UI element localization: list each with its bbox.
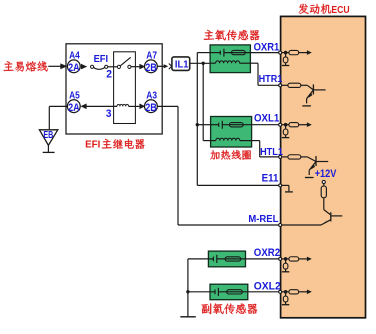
terminal A4 (2A) <box>67 50 80 74</box>
label 发动机ECU <box>299 4 350 16</box>
sub O2 sensor box OXL2 <box>210 284 248 300</box>
svg-text:A5: A5 <box>69 91 80 102</box>
label 主易熔线 <box>4 61 48 71</box>
svg-text:OXR1: OXR1 <box>254 42 280 54</box>
svg-text:2A: 2A <box>68 62 80 74</box>
wire A5 to ground <box>49 106 67 129</box>
svg-text:EFI: EFI <box>94 54 109 65</box>
ECU terminal E11 internal ground <box>279 184 293 192</box>
svg-text:ECU: ECU <box>331 5 349 16</box>
ECU terminal M-REL <box>279 224 321 227</box>
wire sensor common vertical (to E11) <box>197 53 210 186</box>
lower O2 heater box <box>211 117 252 148</box>
svg-text:A3: A3 <box>146 91 157 102</box>
arrow after A4 <box>81 64 87 70</box>
wire OXL2 <box>248 291 279 293</box>
heater coil 2 <box>211 138 252 140</box>
connector IL1 <box>172 57 190 71</box>
junction sub-sensor common <box>186 290 189 293</box>
ECU terminal OXR1 (pull-up network) <box>279 51 282 54</box>
svg-text:OXR2: OXR2 <box>254 247 280 259</box>
heater coil 1 <box>210 61 250 63</box>
wire IL1 to heater bus <box>190 62 210 64</box>
svg-text:2: 2 <box>106 69 112 81</box>
junction IL1/heater bus <box>202 62 205 65</box>
+12V supply and resistor <box>321 180 326 209</box>
wire heater2 to HTL1 <box>252 141 280 157</box>
svg-text:A4: A4 <box>69 50 80 61</box>
svg-text:HTR1: HTR1 <box>259 74 283 85</box>
svg-text:2B: 2B <box>145 102 157 114</box>
fuse EFI (fusible link) <box>91 65 108 69</box>
transistor M-REL driver <box>321 210 342 225</box>
ground EB <box>39 130 57 153</box>
svg-text:A7: A7 <box>146 50 157 61</box>
sensor cell 3 (battery + element) <box>188 255 246 263</box>
ECU box (发动机ECU) <box>281 16 366 317</box>
terminal A7 (2B) <box>145 50 158 74</box>
svg-text:+12V: +12V <box>315 168 337 180</box>
ECU terminal OXR2 (pull-up network) <box>279 257 282 260</box>
wire heater bus vertical <box>203 63 210 140</box>
svg-text:EB: EB <box>43 130 53 141</box>
label 副氧传感器 <box>202 303 258 314</box>
ECU terminal HTR1 driver transistor <box>279 84 282 87</box>
wire A7 to IL1 connector with arrow <box>157 64 171 70</box>
wire OXR1 <box>250 52 279 54</box>
label EFI主继电器 <box>85 139 144 151</box>
svg-text:3: 3 <box>106 108 112 120</box>
wire OXR2 <box>246 258 280 260</box>
wire switch to A7 with arrow <box>131 64 145 70</box>
svg-text:IL1: IL1 <box>175 59 189 70</box>
wire fusible-link feed arrow into A4 <box>48 63 67 69</box>
svg-text:E11: E11 <box>262 172 279 184</box>
svg-text:2A: 2A <box>68 102 80 114</box>
terminal A5 (2A) <box>67 91 80 114</box>
svg-text:EFI: EFI <box>85 140 100 151</box>
ECU terminal HTL1 driver transistor <box>279 155 282 158</box>
label 主氧传感器 <box>204 30 260 41</box>
sensor cell 1 (battery + element) <box>210 49 250 57</box>
svg-text:OXL1: OXL1 <box>254 112 279 124</box>
wire A5 to coil <box>86 105 117 107</box>
wire sub-sensor common <box>187 259 189 317</box>
sub O2 sensor box OXR2 <box>208 251 245 267</box>
ECU terminal OXL1 (pull-up network) <box>279 123 282 126</box>
main O2 sensor box <box>210 45 250 73</box>
ECU terminal OXL2 (pull-up network) <box>279 290 282 293</box>
wire sensor common to lower cell <box>197 124 210 126</box>
wire coil to A3 with arrow <box>129 104 146 110</box>
EFI main relay outer box <box>66 44 162 134</box>
terminal A3 (2B) <box>145 91 158 114</box>
svg-text:M-REL: M-REL <box>248 214 279 225</box>
sensor cell 2 (battery + element) <box>211 121 252 129</box>
wire fuse to switch <box>108 66 118 68</box>
svg-text:OXL2: OXL2 <box>254 281 281 293</box>
relay inner box <box>114 52 136 124</box>
arrow into A5 <box>80 104 86 110</box>
sensor cell 4 (battery + element) <box>188 288 248 296</box>
relay coil <box>117 104 129 106</box>
wire E11 row <box>197 184 279 186</box>
wire A3 to M-REL <box>157 106 279 225</box>
chassis ground (sub sensors) <box>180 316 196 318</box>
svg-text:2B: 2B <box>145 62 157 74</box>
wire OXL1 <box>252 124 280 126</box>
relay switch contacts <box>117 57 131 68</box>
wire heater1 to HTR1 <box>250 63 279 85</box>
junction sensor common / lower cell <box>196 123 199 126</box>
label 加热线圈 <box>210 150 251 160</box>
